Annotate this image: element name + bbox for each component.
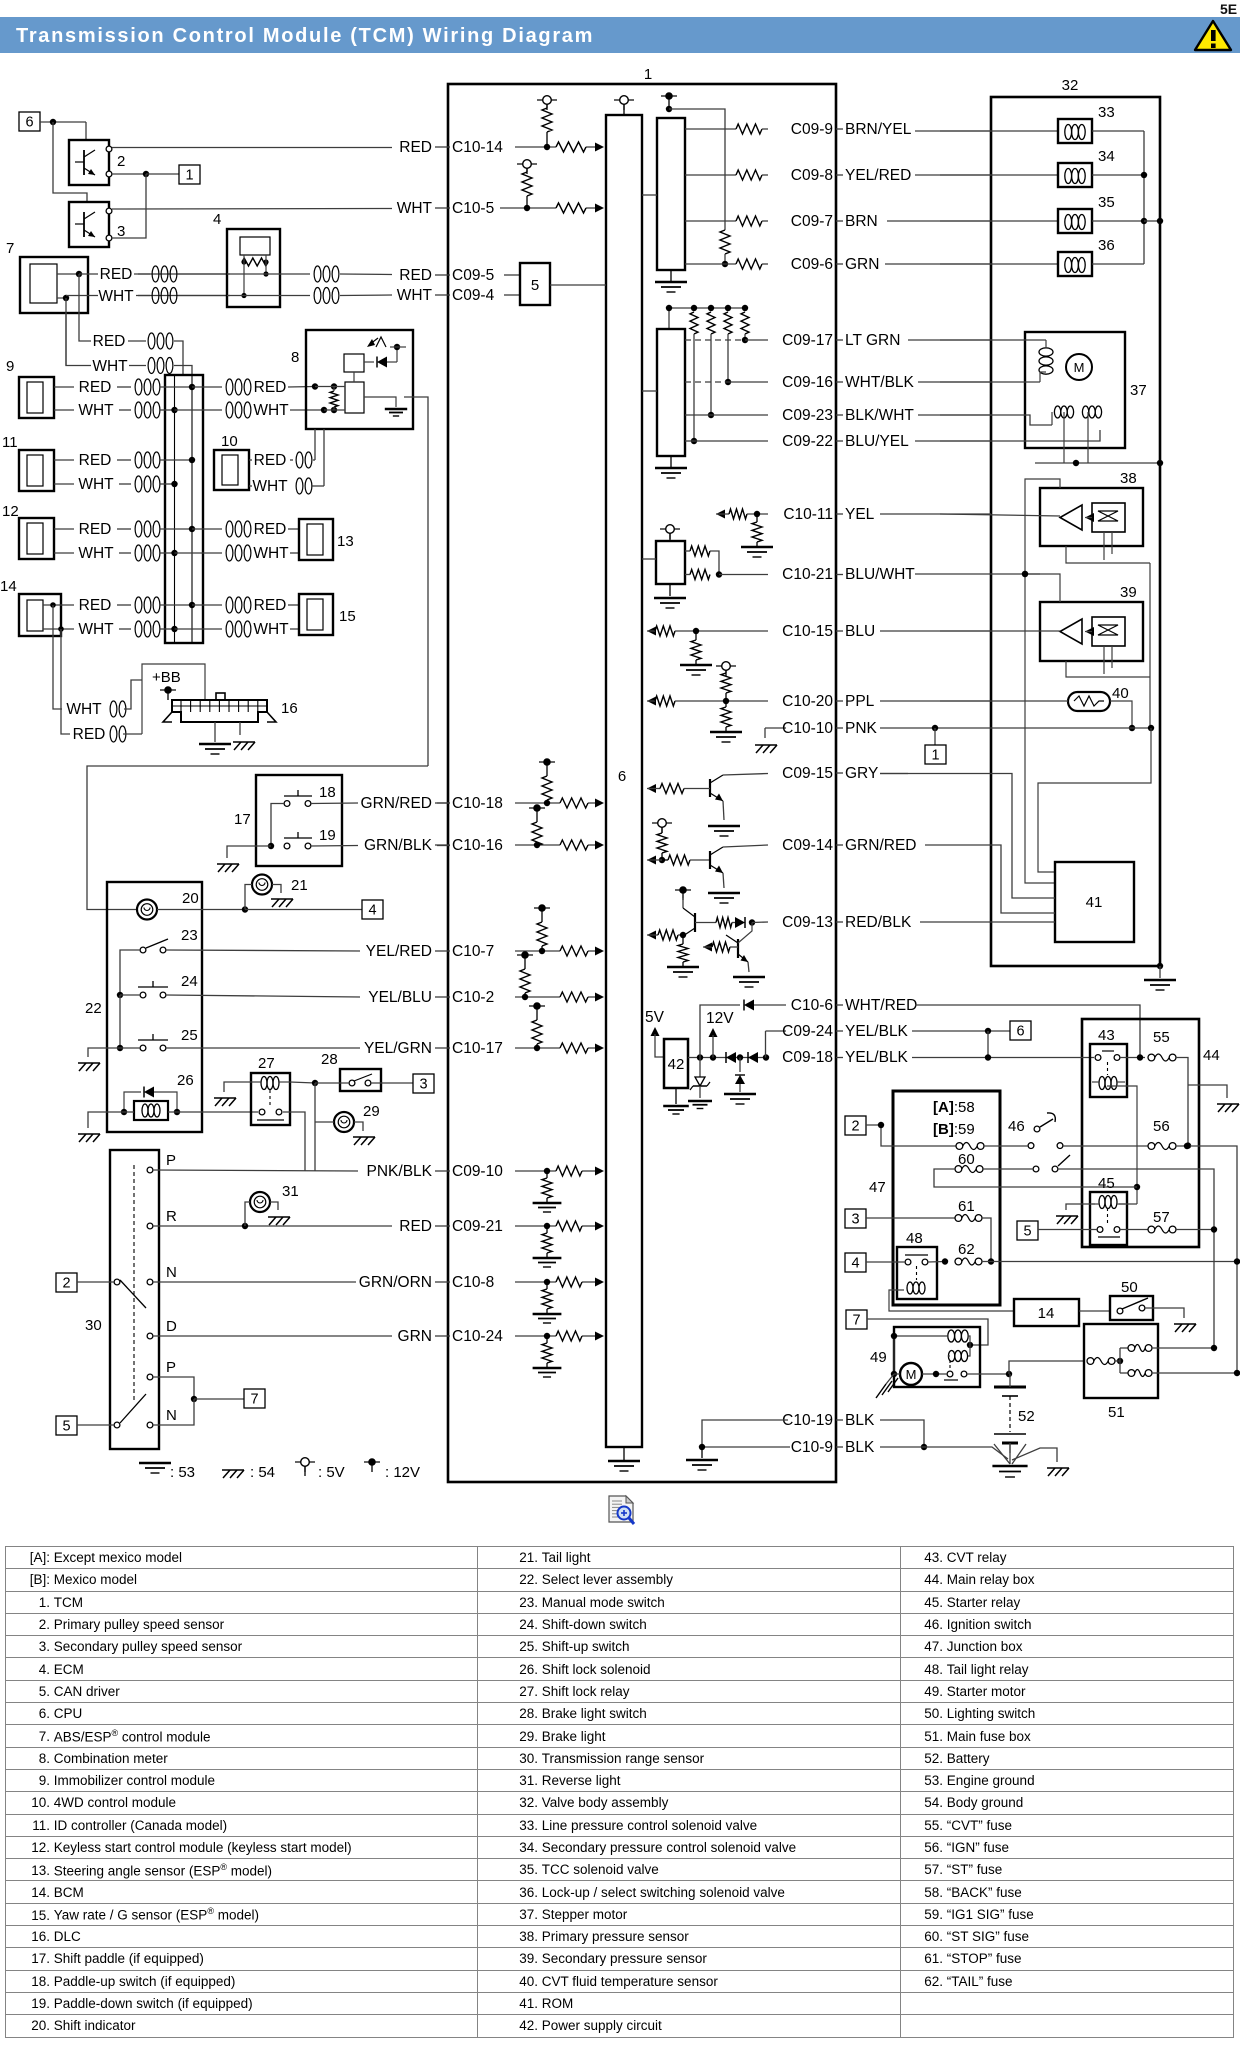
wire to TCM WHT — [340, 294, 392, 297]
junction — [1148, 725, 1154, 731]
junction on C09-6 — [722, 261, 728, 267]
wire into central — [160, 386, 192, 388]
wire down to sensor 3 — [53, 122, 87, 202]
transistor Q2 — [709, 851, 711, 869]
pulldown resistor — [695, 631, 697, 640]
junction C10-11 — [754, 511, 760, 517]
wire sw23 left — [120, 950, 140, 995]
wire fuse60 to switch — [983, 1168, 1033, 1170]
wire RED inside — [57, 273, 79, 275]
junction — [1184, 1143, 1190, 1149]
12V symbol — [679, 886, 687, 894]
protection diode to ground — [739, 1058, 741, 1073]
junction — [1234, 1258, 1240, 1264]
ref box 7 — [846, 1310, 867, 1329]
wire WHT down from ABS — [66, 298, 91, 366]
junction — [171, 407, 177, 413]
svg-text:C10-8: C10-8 — [452, 1274, 494, 1291]
wire fuse56 out — [1176, 1146, 1237, 1373]
collector wire C09-15 — [723, 774, 768, 776]
junction — [942, 1258, 948, 1264]
wire upper fuse out — [1152, 1347, 1214, 1349]
wire to pin C09-7 — [762, 220, 768, 222]
wire RED down from ABS — [78, 274, 80, 313]
wire to RED line — [265, 262, 267, 274]
svg-text:C09-14: C09-14 — [782, 837, 833, 854]
emitter to ground — [723, 801, 724, 820]
wire sw24 right YEL/BLU — [166, 995, 360, 997]
junction node — [143, 171, 149, 177]
svg-text:C09-24: C09-24 — [782, 1023, 833, 1040]
wire into central — [160, 528, 192, 530]
primary pulley speed sensor (2) — [69, 140, 109, 185]
wire fuse57 out — [1176, 1229, 1214, 1231]
junction — [1185, 1142, 1191, 1148]
wire common to ground — [227, 846, 271, 858]
ground54 — [218, 864, 225, 872]
svg-text:7: 7 — [250, 1392, 258, 1408]
wire solenoid 35 out — [1092, 220, 1144, 222]
battery ground hatch — [1012, 1448, 1057, 1462]
DLC side tabs — [163, 712, 172, 722]
svg-text:20: 20 — [182, 890, 199, 907]
wire — [747, 513, 768, 515]
ground54 — [79, 1063, 86, 1071]
driver block B — [657, 329, 685, 456]
wire lamp21 right to ground — [272, 885, 281, 894]
ref box 2 — [56, 1273, 77, 1292]
svg-text:YEL/BLK: YEL/BLK — [845, 1023, 909, 1040]
shift-down switch (24) — [140, 992, 146, 998]
starter coil upper — [894, 1335, 947, 1337]
title bar — [0, 17, 1240, 53]
svg-text:RED: RED — [79, 597, 112, 614]
wire relay45 to fuse57 — [1120, 1229, 1148, 1231]
junction — [708, 412, 714, 418]
pin tick C09-23 — [836, 414, 843, 416]
series resistor C09-21 — [556, 1221, 582, 1231]
svg-text:C09-21: C09-21 — [452, 1218, 503, 1235]
wire driver B to junction C09-17 — [685, 339, 745, 341]
resistor C09-6 — [736, 259, 762, 269]
wiper upper — [114, 1279, 120, 1285]
wire to 13 — [288, 528, 299, 530]
wire to pin C09-9 — [762, 128, 768, 130]
junction — [1022, 571, 1028, 577]
contact R — [147, 1223, 153, 1229]
sensor 2 pin top — [106, 146, 112, 152]
ground — [667, 966, 699, 969]
wire resistor down — [710, 334, 712, 415]
paddle-up switch (18) — [284, 801, 290, 807]
wire C10-19 BLK — [880, 1420, 924, 1447]
keyless start control module (12) — [19, 518, 54, 559]
coil — [135, 476, 142, 492]
diode2 on rail — [748, 1052, 758, 1063]
resistor lower — [690, 570, 710, 580]
svg-text:38: 38 — [1120, 470, 1137, 487]
wire WHT inside — [57, 297, 66, 299]
coil — [296, 452, 303, 468]
sensor 38 port — [1103, 532, 1105, 560]
5V symbol above CPU bar — [620, 96, 629, 105]
harness wire — [915, 130, 991, 132]
svg-text:5V: 5V — [645, 1009, 665, 1026]
wire resistor down — [693, 334, 695, 441]
svg-text:30: 30 — [85, 1317, 102, 1334]
svg-text:C10-21: C10-21 — [782, 566, 833, 583]
svg-text:32: 32 — [1062, 77, 1079, 94]
12V arrow — [709, 1028, 718, 1037]
junction — [396, 347, 398, 362]
wire — [119, 483, 131, 485]
svg-text:YEL: YEL — [845, 506, 875, 523]
wire bus to case — [1144, 220, 1160, 222]
contact N — [147, 1279, 153, 1285]
immobilizer control module (9) — [19, 377, 54, 418]
wire sw18 out GRN/RED — [311, 802, 358, 805]
main fuse — [1087, 1358, 1094, 1365]
internal wire right — [191, 375, 193, 643]
ground — [701, 1447, 703, 1458]
svg-text:14: 14 — [1038, 1305, 1055, 1322]
ST branch fuse — [1120, 1372, 1128, 1374]
svg-text:40: 40 — [1112, 685, 1129, 702]
wire coil to ECM — [178, 273, 227, 275]
ref box 5 — [56, 1416, 77, 1435]
junction — [76, 271, 82, 277]
svg-text:C09-7: C09-7 — [791, 213, 833, 230]
wire battery to fuse box — [1009, 1361, 1084, 1374]
junction C10-24 — [544, 1333, 550, 1339]
svg-text:C09-6: C09-6 — [791, 256, 833, 273]
svg-text:: 53: : 53 — [170, 1464, 195, 1481]
pin tick C09-22 — [836, 440, 843, 442]
junction — [1129, 725, 1135, 731]
ref box 3 — [413, 1074, 434, 1093]
wire fuse61 out — [982, 1218, 991, 1261]
sensor 38 ground — [1066, 546, 1150, 563]
ground54 — [354, 1137, 361, 1145]
wire solenoid 33 out — [1092, 130, 1144, 132]
starter relay (45) — [1090, 1192, 1127, 1245]
svg-text:42: 42 — [668, 1056, 685, 1073]
wire WHT — [54, 409, 74, 411]
series resistor C10-7 — [560, 946, 588, 956]
ground — [710, 731, 742, 734]
wire RED — [249, 459, 252, 461]
svg-text:1: 1 — [185, 168, 193, 184]
wire CAN to CPU — [550, 284, 606, 286]
svg-text:BRN: BRN — [845, 213, 878, 230]
wire ref5 to wiper — [77, 1424, 114, 1426]
svg-text:50: 50 — [1121, 1279, 1138, 1296]
ref box 7 — [244, 1389, 265, 1408]
C09-24 internal elbow — [765, 1031, 767, 1058]
harness wire — [885, 263, 991, 265]
svg-text:: 12V: : 12V — [385, 1464, 420, 1481]
wire to 15 — [288, 604, 299, 606]
junction c — [737, 1054, 743, 1060]
flyback diode loop — [124, 1092, 141, 1112]
svg-text:36: 36 — [1098, 237, 1115, 254]
junction — [933, 1371, 939, 1377]
junction — [1141, 172, 1147, 178]
wire to meter — [288, 386, 315, 389]
rail stem to driver B — [668, 308, 670, 329]
arrow into CPU C10-20 — [647, 697, 656, 706]
svg-text:BLK: BLK — [845, 1439, 875, 1456]
wire elbow — [710, 551, 719, 575]
svg-text:7: 7 — [6, 240, 14, 257]
svg-text:WHT/BLK: WHT/BLK — [845, 374, 915, 391]
pullup C10-18 — [543, 758, 551, 766]
junction — [171, 550, 177, 556]
svg-text:RED: RED — [79, 379, 112, 396]
wire starter out to battery — [967, 1373, 1009, 1375]
svg-text:61: 61 — [958, 1198, 975, 1215]
sensor 39 element box — [1092, 617, 1125, 646]
svg-text:M: M — [906, 1367, 917, 1382]
svg-text:C10-24: C10-24 — [452, 1328, 503, 1345]
ground54 — [215, 1098, 222, 1106]
svg-text:2: 2 — [117, 153, 125, 170]
battery (52) — [994, 1386, 1026, 1389]
relay45 dashed — [1107, 1208, 1109, 1223]
svg-text:C10-7: C10-7 — [452, 943, 494, 960]
pulldown C10-24 — [546, 1336, 548, 1343]
svg-text:55: 55 — [1153, 1029, 1170, 1046]
harness wire — [915, 440, 991, 442]
12V symbol legend — [368, 1458, 376, 1466]
engine ground symbol legend — [139, 1462, 171, 1465]
coil — [226, 379, 233, 395]
svg-text:RED: RED — [399, 1218, 432, 1235]
ST fuse (57) — [1148, 1226, 1155, 1233]
svg-text:2: 2 — [62, 1276, 70, 1292]
svg-text:WHT: WHT — [397, 200, 433, 217]
elbow to ground — [764, 728, 766, 738]
svg-text:RED: RED — [399, 267, 432, 284]
svg-text:33: 33 — [1098, 104, 1115, 121]
svg-text:51: 51 — [1108, 1404, 1125, 1421]
svg-text:[B]:59: [B]:59 — [933, 1121, 975, 1138]
resistor upper — [690, 546, 710, 556]
junction — [1073, 460, 1079, 466]
ST SIG fuse (60) — [955, 1166, 962, 1173]
ID controller (11) — [19, 450, 54, 491]
wire — [437, 802, 450, 804]
wire down to 4WD WHT — [323, 429, 325, 486]
wire RED through ECM — [227, 273, 310, 275]
wire ign ST out — [1058, 1169, 1214, 1348]
svg-text:C09-9: C09-9 — [791, 121, 833, 138]
svg-text:43: 43 — [1098, 1027, 1115, 1044]
relay48 dashed — [916, 1266, 918, 1280]
svg-text:WHT: WHT — [78, 545, 114, 562]
junction RED — [312, 383, 318, 389]
wire to TCM RED — [340, 273, 392, 276]
svg-text:8: 8 — [291, 349, 299, 366]
junction — [50, 602, 56, 608]
wire into central — [160, 409, 175, 411]
body ground symbol legend — [223, 1470, 230, 1478]
svg-text:WHT: WHT — [252, 478, 288, 495]
svg-text:C09-17: C09-17 — [782, 332, 833, 349]
svg-text:C10-11: C10-11 — [783, 506, 833, 523]
arrow base — [647, 931, 656, 940]
diode — [364, 361, 374, 363]
diode — [735, 917, 745, 928]
wire from box6 — [40, 121, 86, 123]
junction — [268, 843, 274, 849]
wire 12V to pullup resistor — [669, 109, 725, 230]
wire solenoid row — [124, 1111, 134, 1113]
wire down to 4WD RED — [314, 429, 316, 460]
wire lamp31 right ground — [270, 1202, 278, 1210]
ground below driver B — [670, 456, 672, 467]
junction — [1141, 218, 1147, 224]
svg-text:6: 6 — [25, 115, 33, 131]
wire pair to DLC box — [124, 680, 142, 709]
wire GRN/RED to ROM — [925, 845, 1055, 913]
wire left edge — [893, 1336, 895, 1374]
svg-text:C09-4: C09-4 — [452, 287, 495, 304]
wire driver B to junction C09-23 — [685, 414, 711, 416]
wire RED — [54, 528, 74, 530]
svg-text:RED: RED — [93, 333, 126, 350]
tie between YEL/BLK — [987, 1031, 989, 1058]
wire lamp29 right to ground — [354, 1122, 363, 1131]
junction — [189, 602, 195, 608]
coil — [135, 545, 142, 561]
wire M to contacts — [922, 1373, 947, 1375]
BCM connector (14) — [19, 594, 61, 636]
svg-text:9: 9 — [6, 358, 14, 375]
svg-text:C10-5: C10-5 — [452, 200, 494, 217]
junction — [191, 1396, 197, 1402]
twisted pair coil — [152, 266, 159, 282]
Q4 emitter ground — [748, 962, 749, 972]
pulldown C09-21 — [546, 1226, 548, 1233]
svg-text:C09-10: C09-10 — [452, 1163, 503, 1180]
pulldown C10-8 — [546, 1282, 548, 1289]
wire sw25 left — [120, 1047, 140, 1049]
svg-text:C09-5: C09-5 — [452, 267, 494, 284]
wire into central — [160, 552, 175, 554]
svg-text:5: 5 — [531, 277, 539, 294]
wire N2 to ref7 — [153, 1399, 194, 1425]
interface block — [656, 541, 685, 584]
transmission range sensor (30) — [110, 1150, 159, 1449]
junction — [1211, 1345, 1217, 1351]
ground below block — [669, 584, 671, 596]
branch to body ground — [1188, 1085, 1227, 1098]
wire WHT through ECM — [227, 295, 310, 297]
pullup resistor — [707, 312, 715, 334]
wire into central — [160, 459, 192, 461]
junction WHT — [321, 407, 327, 413]
svg-text:16: 16 — [281, 700, 298, 717]
wire — [117, 459, 131, 461]
svg-text:12V: 12V — [706, 1010, 734, 1027]
wire into solenoid 35 — [940, 220, 1058, 222]
relay27 contacts — [259, 1109, 265, 1115]
svg-text:: 5V: : 5V — [318, 1464, 345, 1481]
wire ref4 to relay48 — [866, 1261, 905, 1263]
wire WHT out — [66, 295, 230, 297]
svg-text:2: 2 — [851, 1119, 859, 1135]
junction — [171, 626, 177, 632]
svg-text:49: 49 — [870, 1349, 887, 1366]
wire sw19 out GRN/BLK — [311, 845, 358, 848]
wire BCM to switch 50 — [1079, 1310, 1110, 1312]
svg-text:62: 62 — [958, 1241, 975, 1258]
svg-text:WHT: WHT — [253, 402, 289, 419]
coil — [135, 621, 142, 637]
junction C09-21 — [544, 1223, 550, 1229]
wire fuse60 left loop — [934, 1169, 1137, 1187]
ground54 — [1175, 1324, 1182, 1332]
svg-text:C10-18: C10-18 — [452, 795, 503, 812]
junction — [699, 1444, 705, 1450]
driver block A — [657, 118, 685, 270]
wire from BCM conn down RED — [61, 629, 70, 734]
svg-text:34: 34 — [1098, 148, 1115, 165]
svg-text:RED: RED — [79, 521, 112, 538]
manual mode switch (23) — [140, 947, 146, 953]
wire to 15 — [290, 628, 299, 630]
relay48 contacts — [905, 1259, 911, 1265]
wire central to meter RED — [192, 386, 222, 388]
svg-text:14: 14 — [0, 578, 17, 595]
12V symbol above driver A — [665, 92, 673, 100]
relay45 coil — [1099, 1196, 1105, 1209]
junction — [189, 457, 195, 463]
wire driver A to C09-7 — [685, 220, 736, 222]
coil — [226, 402, 233, 418]
pin tick C09-17 — [836, 339, 843, 341]
wire fuse62 out — [982, 1261, 1237, 1263]
warning icon — [1192, 19, 1234, 53]
relay27 coil left to ground — [224, 1082, 251, 1092]
junction — [659, 857, 665, 863]
svg-text:WHT/RED: WHT/RED — [845, 997, 917, 1014]
pullup resistor — [690, 312, 698, 334]
junction on case — [1157, 218, 1163, 224]
svg-text:5: 5 — [1023, 1224, 1031, 1240]
wire to pin C09-8 — [762, 174, 768, 176]
ground54 — [79, 1134, 86, 1142]
coil WHT — [110, 701, 117, 717]
wire lamp21 left — [245, 885, 252, 910]
harness wire — [880, 630, 991, 632]
wire sw18 to common — [271, 804, 284, 847]
ground54 — [756, 745, 763, 753]
coil RED — [110, 726, 117, 742]
svg-text:RED: RED — [254, 379, 287, 396]
junction C09-10 — [544, 1168, 550, 1174]
relay43 dashed — [1107, 1062, 1109, 1075]
relay43 contacts — [1095, 1055, 1101, 1061]
shift lock relay (27) — [251, 1073, 290, 1125]
wire into solenoid 36 — [940, 263, 1058, 265]
coil — [226, 521, 233, 537]
sensor return to ROM rail — [1038, 728, 1151, 872]
svg-text:P: P — [166, 1359, 176, 1376]
lighting switch (50) — [1110, 1296, 1153, 1320]
pullup resistor — [741, 312, 749, 334]
